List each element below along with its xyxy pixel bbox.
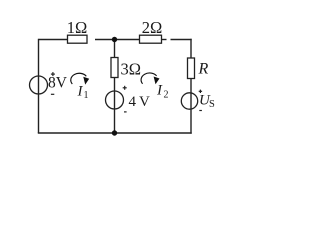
wire left vertical bbox=[38, 39, 40, 133]
polarity + of US bbox=[199, 90, 202, 93]
svg-text:3Ω: 3Ω bbox=[121, 60, 142, 79]
wire top-middle (1Ω to node A to 2Ω) bbox=[95, 39, 140, 41]
voltage source US circle bbox=[181, 93, 197, 109]
node top junction bbox=[112, 37, 117, 42]
mesh current arrow I1 bbox=[71, 73, 89, 84]
wire 2Ω right lead stub bbox=[162, 39, 167, 41]
voltage source 4V circle bbox=[106, 91, 124, 109]
svg-text:1: 1 bbox=[84, 90, 89, 101]
wire right vertical lower bbox=[190, 79, 192, 134]
polarity + of 8V bbox=[51, 72, 55, 76]
svg-text:R: R bbox=[198, 61, 209, 78]
polarity - of 8V bbox=[51, 93, 54, 95]
svg-text:1Ω: 1Ω bbox=[67, 18, 88, 37]
wire top-right horizontal bbox=[171, 39, 192, 41]
wire right vertical upper bbox=[190, 39, 192, 58]
polarity - of US bbox=[199, 110, 202, 112]
polarity + of 4V bbox=[123, 86, 127, 90]
svg-text:S: S bbox=[209, 99, 215, 110]
resistor 2Ω body bbox=[140, 35, 162, 43]
node bottom junction bbox=[112, 130, 117, 135]
svg-text:I: I bbox=[77, 84, 84, 100]
resistor 1Ω body bbox=[68, 35, 88, 43]
wire top-left horizontal bbox=[39, 39, 68, 41]
svg-text:2: 2 bbox=[164, 90, 169, 101]
svg-text:8V: 8V bbox=[48, 75, 68, 92]
resistor R body bbox=[188, 58, 195, 79]
wire middle vertical upper bbox=[114, 40, 116, 58]
polarity - of 4V bbox=[124, 111, 127, 113]
voltage source 8V circle bbox=[30, 76, 48, 94]
svg-text:2Ω: 2Ω bbox=[142, 18, 163, 37]
wire middle vertical lower bbox=[114, 78, 116, 134]
svg-text:4 V: 4 V bbox=[129, 94, 151, 110]
wire bottom horizontal bbox=[38, 132, 192, 134]
svg-text:I: I bbox=[156, 83, 163, 99]
resistor 3Ω body bbox=[111, 58, 118, 78]
mesh current arrow I2 bbox=[141, 73, 159, 84]
